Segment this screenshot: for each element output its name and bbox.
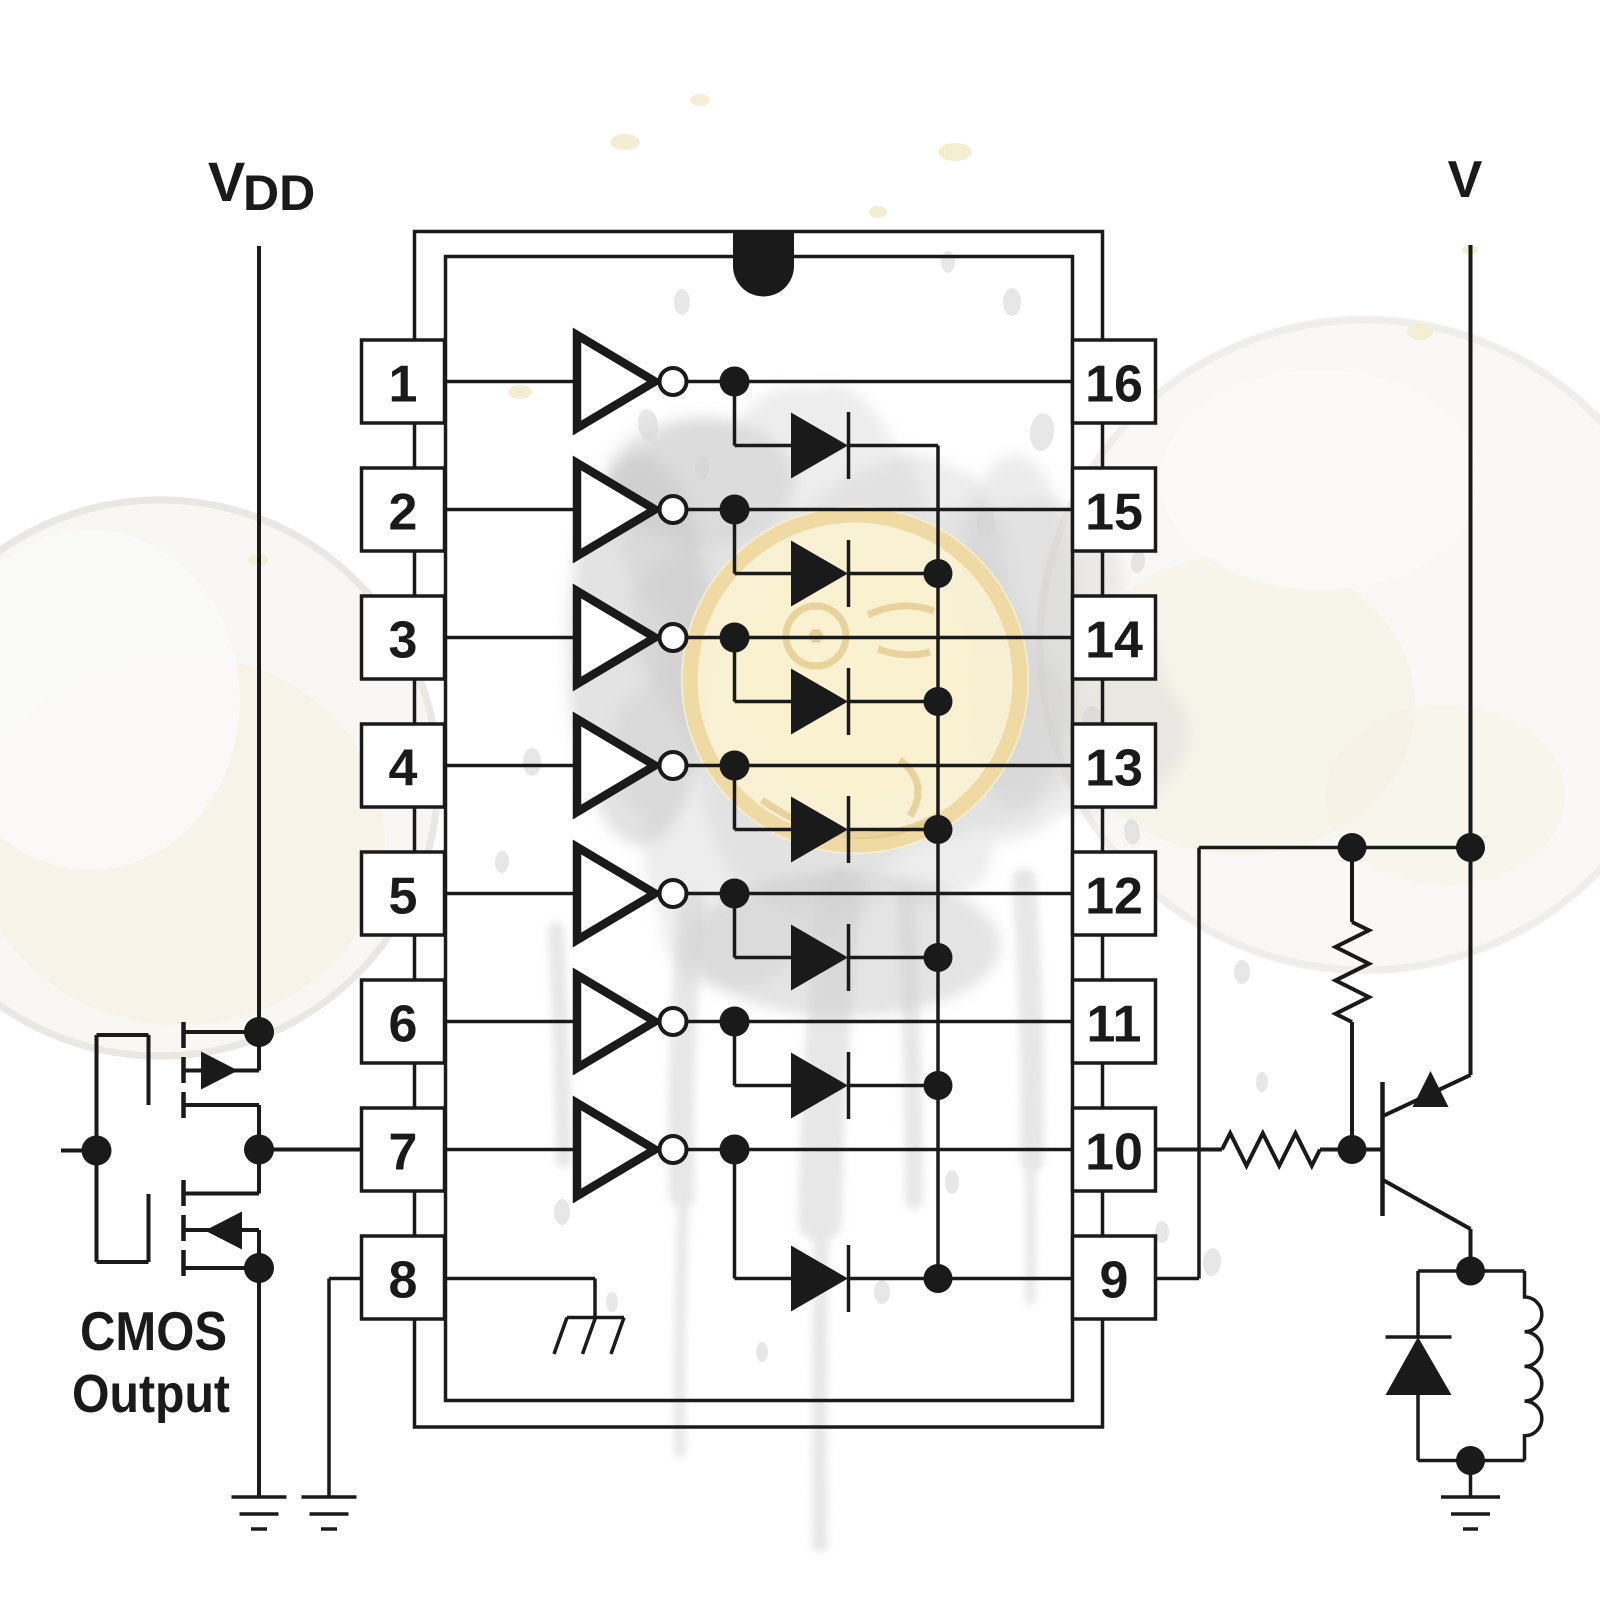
svg-text:8: 8 (389, 1252, 418, 1310)
svg-text:V: V (1448, 151, 1483, 209)
svg-text:2: 2 (389, 484, 418, 542)
svg-text:10: 10 (1085, 1124, 1143, 1182)
svg-text:5: 5 (389, 868, 418, 926)
svg-text:14: 14 (1085, 612, 1143, 670)
svg-text:7: 7 (389, 1124, 418, 1182)
svg-text:1: 1 (389, 356, 418, 414)
svg-text:15: 15 (1085, 484, 1143, 542)
svg-text:CMOS: CMOS (80, 1300, 227, 1362)
svg-text:12: 12 (1085, 868, 1143, 926)
svg-text:9: 9 (1100, 1252, 1129, 1310)
svg-text:4: 4 (389, 740, 418, 798)
svg-text:DD: DD (243, 165, 315, 221)
svg-text:V: V (208, 150, 245, 213)
svg-text:Output: Output (72, 1364, 230, 1424)
svg-text:16: 16 (1085, 356, 1143, 414)
svg-text:11: 11 (1087, 996, 1142, 1054)
svg-text:3: 3 (389, 612, 418, 670)
svg-text:6: 6 (389, 996, 418, 1054)
svg-text:13: 13 (1085, 740, 1143, 798)
